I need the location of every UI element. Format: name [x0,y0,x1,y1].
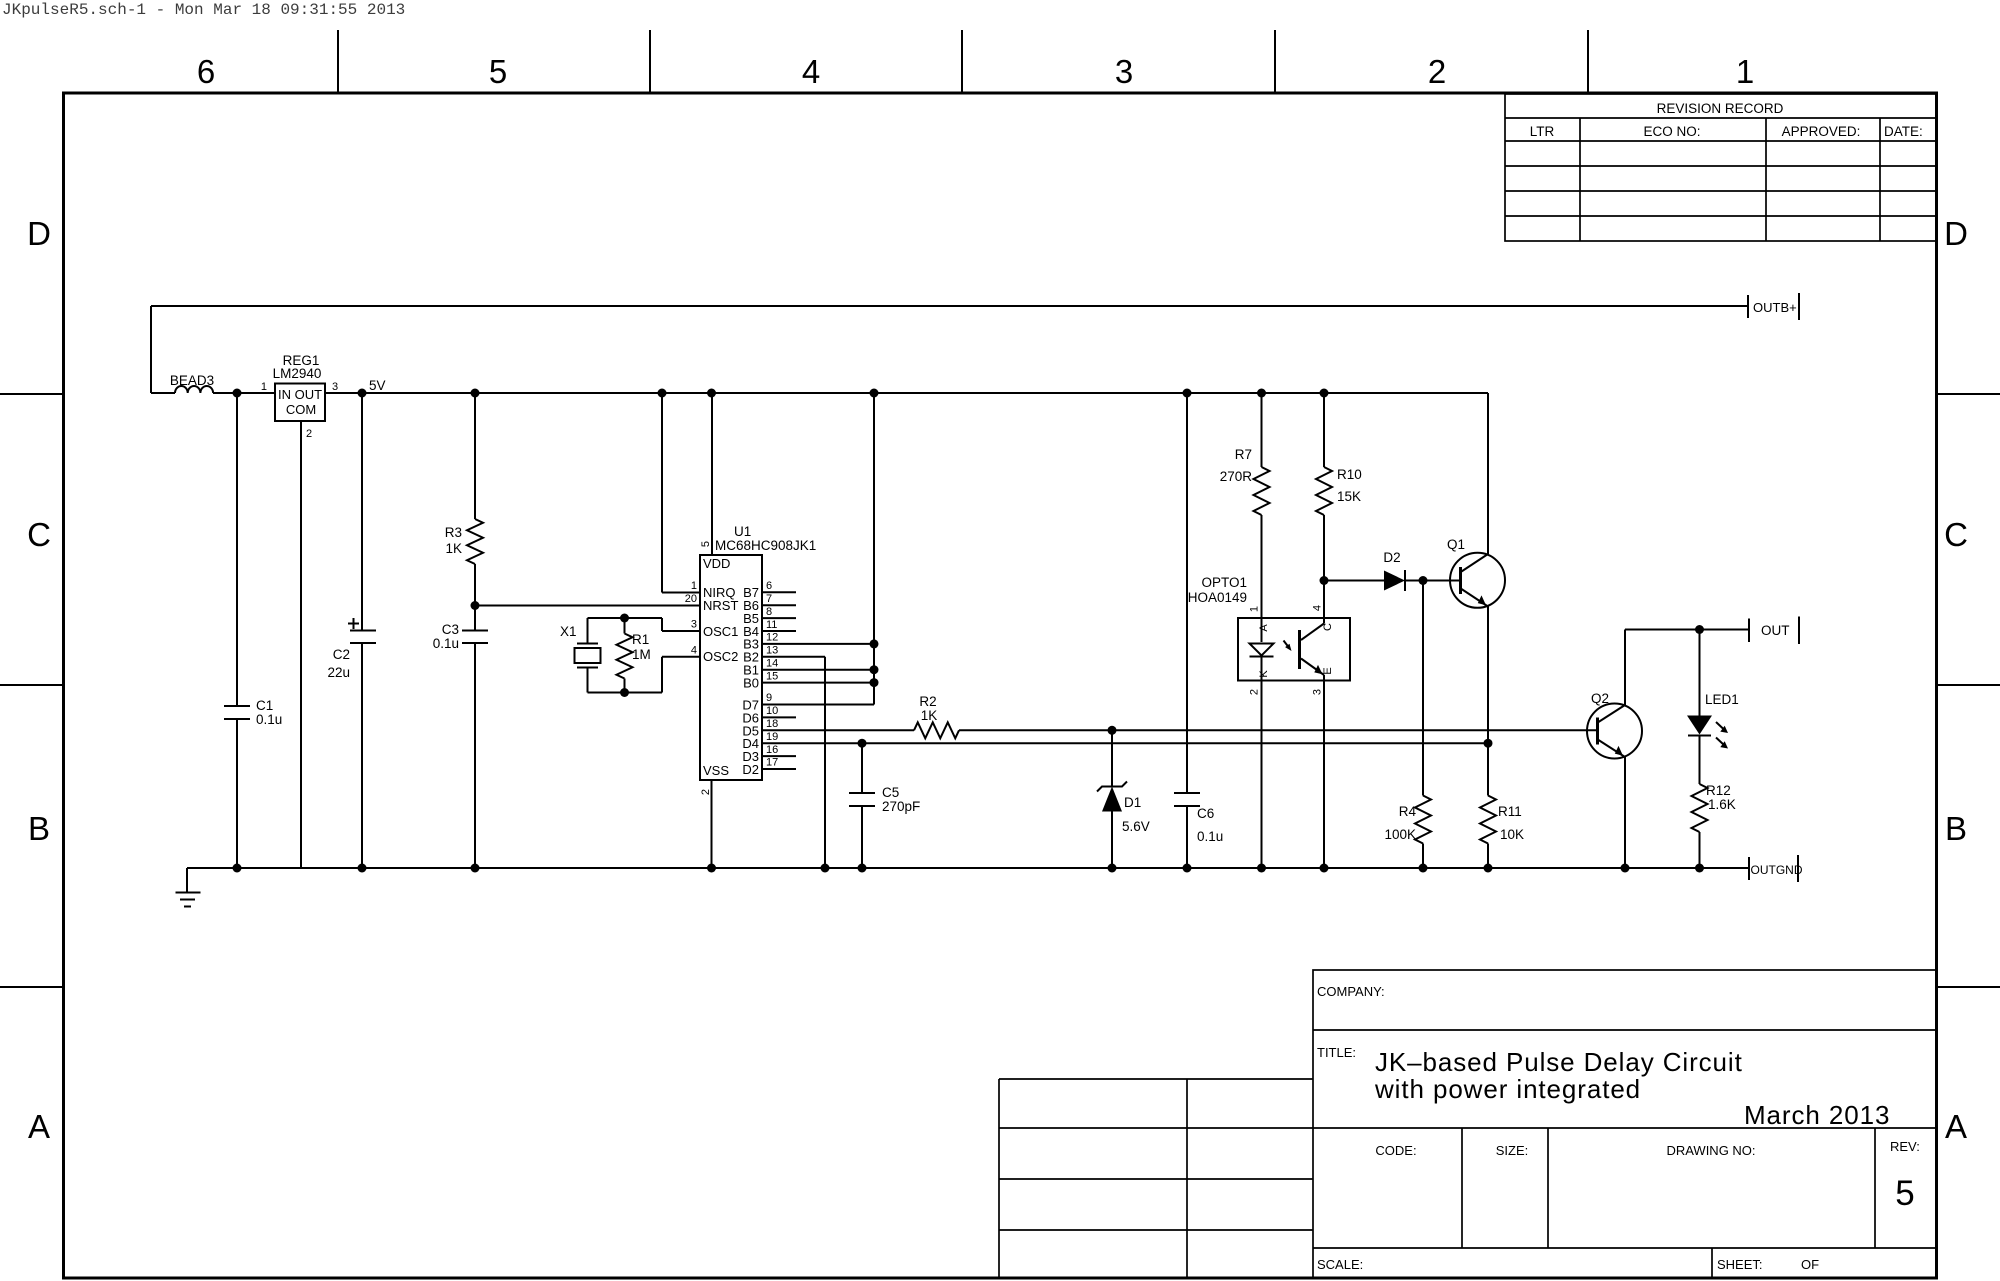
svg-text:5: 5 [700,541,712,547]
svg-text:9: 9 [766,692,772,704]
svg-text:R3: R3 [445,525,462,540]
svg-text:0.1u: 0.1u [433,636,459,651]
pin OSC2 4 [691,645,739,665]
pin NRST 20 [685,593,739,613]
svg-text:A: A [1945,1108,1967,1145]
svg-text:C2: C2 [333,647,350,662]
zone letters right [1944,215,1968,1145]
svg-text:OSC1: OSC1 [703,624,738,639]
pin B2 13 wire to ground [743,645,825,869]
title block [1313,970,1937,1278]
svg-text:12: 12 [766,632,778,644]
zone letters left [27,215,51,1145]
svg-text:13: 13 [766,645,778,657]
ground [176,868,201,907]
svg-text:2: 2 [306,428,312,440]
resistor R3 [445,393,483,606]
svg-text:3: 3 [1115,53,1133,90]
svg-text:5.6V: 5.6V [1122,819,1150,834]
svg-text:ECO NO:: ECO NO: [1643,124,1700,139]
svg-text:19: 19 [766,731,778,743]
svg-text:R12: R12 [1706,783,1731,798]
junction dot D1 top [1108,726,1117,735]
crystal X1 [560,618,601,693]
wire Q1 emitter down [1487,607,1489,744]
svg-text:CODE:: CODE: [1375,1143,1416,1158]
svg-text:SCALE:: SCALE: [1317,1257,1363,1272]
wire bead to REG1 IN [213,392,275,394]
svg-text:D2: D2 [742,762,759,777]
wire input to bead [151,392,175,394]
svg-text:1.6K: 1.6K [1708,797,1736,812]
svg-text:TITLE:: TITLE: [1317,1045,1356,1060]
junction dots on ground rail [233,864,1705,873]
svg-text:Q1: Q1 [1447,537,1465,552]
svg-text:LM2940: LM2940 [273,366,322,381]
svg-text:1: 1 [1736,53,1754,90]
svg-text:C: C [1944,516,1968,553]
junction dot OUT / LED1 [1695,625,1704,634]
capacitor C2 electrolytic [327,393,376,868]
svg-text:5: 5 [489,53,507,90]
svg-text:LED1: LED1 [1705,692,1739,707]
svg-text:C3: C3 [442,622,459,637]
svg-text:OUT: OUT [1761,623,1790,638]
svg-text:K: K [1258,670,1270,678]
svg-text:16: 16 [766,744,778,756]
wire Q2 emitter to ground [1624,757,1626,868]
svg-text:15K: 15K [1337,489,1361,504]
svg-text:4: 4 [1312,605,1324,611]
resistor R2 [914,694,959,738]
wire D2 to Q1 base [1405,580,1459,582]
svg-text:DATE:: DATE: [1884,124,1923,139]
pin D3 16 [742,744,796,764]
wire U1 pin 5 VDD to 5V rail [700,393,712,555]
svg-text:R4: R4 [1399,804,1417,819]
svg-text:15: 15 [766,670,778,682]
opto light arrow [1284,641,1292,652]
svg-text:C: C [27,516,51,553]
regulator REG1 LM2940 [261,353,338,440]
wire OSC1 net to crystal [588,618,701,631]
pin B1 14 wire to 5V bus [743,657,874,677]
svg-text:B: B [1945,810,1967,847]
svg-text:with power integrated: with power integrated [1374,1074,1641,1104]
svg-text:JK–based Pulse Delay Circuit: JK–based Pulse Delay Circuit [1375,1047,1743,1077]
svg-text:D2: D2 [1383,550,1400,565]
svg-text:COMPANY:: COMPANY: [1317,984,1385,999]
svg-text:3: 3 [332,381,338,393]
wire R10 to D2 [1324,580,1384,582]
wire U1 pin 2 VSS to ground rail [700,780,712,868]
wire B3/B1/B0/D7 bus vertical to 5V rail [870,393,879,705]
pin B6 7 [743,593,796,613]
wire opto pin4 to D2 junction [1323,581,1325,619]
svg-text:Q2: Q2 [1591,691,1609,706]
svg-text:20: 20 [685,593,697,605]
svg-text:6: 6 [766,580,772,592]
svg-text:5: 5 [1895,1174,1914,1213]
inductor BEAD3 [170,373,214,393]
svg-text:1: 1 [261,381,267,393]
svg-text:C5: C5 [882,785,899,800]
pin B7 6 [743,580,796,600]
wire 5V rail [325,392,1488,394]
svg-text:17: 17 [766,757,778,769]
svg-text:COM: COM [286,402,316,417]
LED1 light arrows [1716,722,1728,749]
svg-text:0.1u: 0.1u [1197,829,1223,844]
svg-text:APPROVED:: APPROVED: [1782,124,1861,139]
wire Q2 collector to OUT [1625,630,1749,706]
wire NRST net [475,605,700,607]
svg-text:8: 8 [766,606,772,618]
svg-text:NRST: NRST [703,598,738,613]
junction dot R10/D2/opto pin4 [1320,576,1329,585]
resistor R12 [1692,783,1736,868]
pin D5 18 [742,718,778,738]
svg-text:VDD: VDD [703,556,730,571]
svg-text:OSC2: OSC2 [703,649,738,664]
svg-text:DRAWING NO:: DRAWING NO: [1666,1143,1755,1158]
pin B3 12 wire to 5V bus [743,632,874,652]
svg-text:7: 7 [766,593,772,605]
LED LED1 [1687,630,1739,785]
junction dot C1 top [233,389,242,398]
connector OUTGND [1749,855,1803,882]
opto LED [1250,618,1274,681]
junction dot Q1 emitter / D4 / R11 [1484,739,1493,748]
pin D7 9 wire to 5V bus [742,692,874,712]
svg-text:5V: 5V [369,378,386,393]
svg-text:X1: X1 [560,624,577,639]
capacitor C6 [1174,393,1223,868]
wire NIRQ net [662,393,700,593]
resistor R11 [1480,743,1524,868]
svg-text:HOA0149: HOA0149 [1188,590,1247,605]
bottom-left spare table [999,1079,1313,1278]
op-amp U1 MC68HC908JK1 body [700,524,816,780]
svg-text:C1: C1 [256,698,273,713]
diode D1 zener 5.6V [1097,730,1150,868]
svg-text:B0: B0 [743,676,759,691]
capacitor C5 [849,743,920,868]
wire D5 net left segment [762,729,914,731]
capacitor C3 [433,606,488,869]
pin OSC1 3 [691,619,739,640]
svg-text:BEAD3: BEAD3 [170,373,214,388]
svg-text:10K: 10K [1500,827,1524,842]
svg-text:OUTB+: OUTB+ [1753,300,1797,315]
svg-text:270pF: 270pF [882,799,920,814]
wire OUTB+ net horizontal [151,305,1748,307]
pin B5 8 [743,606,796,626]
svg-text:2: 2 [1249,689,1261,695]
junction dots on 5V rail [358,389,1329,398]
svg-text:B: B [28,810,50,847]
pin D6 10 [742,705,796,725]
svg-text:VSS: VSS [703,763,729,778]
svg-text:R10: R10 [1337,467,1362,482]
connector OUT [1749,617,1799,645]
opto phototransistor [1300,618,1335,681]
wire OSC2 net to crystal [588,657,701,693]
svg-text:4: 4 [802,53,820,90]
wire D5 net right segment to Q2 base [959,729,1597,731]
svg-text:R2: R2 [919,694,936,709]
svg-text:REV:: REV: [1890,1139,1920,1154]
svg-text:JKpulseR5.sch-1 - Mon Mar 18 0: JKpulseR5.sch-1 - Mon Mar 18 09:31:55 20… [2,1,405,19]
wire ground rail [187,867,1749,869]
svg-text:OUTGND: OUTGND [1751,863,1803,877]
wire OUTB+ net vertical drop [150,306,152,393]
svg-text:10: 10 [766,705,778,717]
resistor R7 [1220,393,1270,618]
svg-text:A: A [28,1108,50,1145]
svg-text:R7: R7 [1235,447,1252,462]
svg-text:D: D [27,215,51,252]
wire REG1 COM pin to ground rail [300,421,302,868]
svg-text:1K: 1K [445,541,462,556]
capacitor C1 [224,393,282,868]
pin NIRQ 1 [691,580,736,600]
wire D4 net [762,742,1488,744]
svg-text:3: 3 [691,619,697,631]
svg-text:0.1u: 0.1u [256,712,282,727]
svg-text:D: D [1944,215,1968,252]
resistor R1 [617,614,651,698]
svg-text:C6: C6 [1197,806,1214,821]
connector OUTB+ [1748,293,1799,320]
revision record table [1505,94,1937,241]
svg-text:U1: U1 [734,524,751,539]
svg-text:1: 1 [1249,606,1261,612]
svg-text:100K: 100K [1384,827,1416,842]
junction dot R4 top [1419,576,1428,585]
svg-text:4: 4 [691,645,697,657]
svg-text:C: C [1322,623,1334,631]
svg-text:22u: 22u [327,665,350,680]
transistor Q2 [1587,691,1642,759]
svg-text:6: 6 [197,53,215,90]
svg-text:R11: R11 [1498,804,1522,819]
pin B0 15 wire to 5V bus [743,670,874,690]
svg-text:MC68HC908JK1: MC68HC908JK1 [715,538,816,553]
svg-text:18: 18 [766,718,778,730]
svg-text:March 2013: March 2013 [1744,1100,1890,1130]
svg-text:270R: 270R [1220,469,1253,484]
junction dot C5 top [858,739,867,748]
wire 5V rail corner to Q1 collector [1487,393,1489,554]
svg-text:1: 1 [691,580,697,592]
transistor Q1 [1447,537,1505,608]
opto-isolator OPTO1 HOA0149 [1188,575,1350,695]
svg-text:11: 11 [766,619,777,631]
resistor R10 [1316,393,1362,581]
resistor R4 [1384,581,1431,869]
svg-text:SIZE:: SIZE: [1496,1143,1529,1158]
svg-text:R1: R1 [632,632,649,647]
diode D2 [1383,550,1405,591]
svg-text:1M: 1M [632,647,651,662]
svg-text:A: A [1258,624,1270,632]
svg-text:OF: OF [1801,1257,1819,1272]
svg-text:14: 14 [766,657,778,669]
svg-text:2: 2 [700,789,712,795]
svg-text:E: E [1322,667,1334,674]
pin B4 11 [743,619,796,639]
svg-text:IN OUT: IN OUT [278,387,322,402]
junction dot NRST [471,601,480,610]
svg-text:3: 3 [1312,689,1324,695]
svg-text:1K: 1K [921,708,938,723]
svg-text:SHEET:: SHEET: [1717,1257,1763,1272]
svg-text:D1: D1 [1124,795,1141,810]
pin D4 19 [742,731,778,751]
svg-text:LTR: LTR [1530,124,1555,139]
svg-text:2: 2 [1428,53,1446,90]
pin D2 17 [742,757,796,777]
wire opto pin2 to ground [1261,681,1263,869]
svg-text:OPTO1: OPTO1 [1201,575,1247,590]
wire opto pin3 to ground [1323,681,1325,869]
svg-text:REVISION RECORD: REVISION RECORD [1657,101,1784,116]
